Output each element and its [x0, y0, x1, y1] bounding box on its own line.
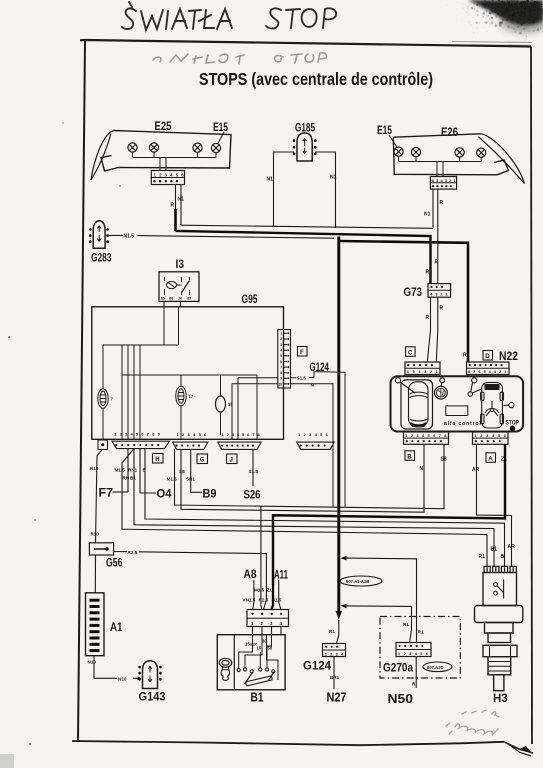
- F boxed label: [298, 347, 308, 357]
- A boxed label: [486, 453, 496, 463]
- fusebox A1: [86, 593, 105, 656]
- bulb E26-2: [411, 148, 420, 157]
- svg-text:N: N: [420, 466, 424, 472]
- brake switch H3 body: [475, 573, 523, 691]
- svg-text:123456: 123456: [474, 433, 509, 438]
- wires connector to ignition switch box: [253, 627, 282, 635]
- G95 internal wire from 30: [178, 307, 180, 345]
- D boxed label: [483, 351, 493, 361]
- right extra connector trapezoid: [297, 442, 335, 449]
- svg-text:N1.5: N1.5: [124, 234, 135, 240]
- wire lamp 17 down: [180, 406, 182, 440]
- svg-text:N1: N1: [424, 212, 431, 218]
- svg-text:N1.5: N1.5: [272, 597, 282, 602]
- svg-text:R: R: [440, 200, 444, 206]
- H boxed label: [153, 454, 164, 464]
- pointer line E15 to bulb: [389, 135, 398, 148]
- svg-text:G124: G124: [310, 362, 330, 374]
- svg-text:R: R: [412, 682, 416, 687]
- svg-text:7: 7: [111, 397, 114, 402]
- internal device 15 oval: [216, 396, 226, 412]
- faint pencil scribbles bottom right: [446, 710, 499, 735]
- R2.5 wire into pin 2: [264, 600, 267, 610]
- wire AR from A to H3: [477, 444, 512, 566]
- taillight housing E25 (left): [91, 131, 231, 180]
- svg-text:E15: E15: [377, 125, 392, 137]
- internal lamp 7: [98, 389, 108, 409]
- wire B to bundle (line P): [145, 449, 505, 567]
- arrow end of heavy wire: [336, 611, 342, 620]
- svg-text:1234: 1234: [251, 621, 289, 626]
- taillight housing E26 (right): [393, 134, 524, 184]
- svg-text:3: 3: [280, 343, 282, 347]
- bulb E26-1: [394, 147, 403, 156]
- svg-text:O4: O4: [157, 487, 172, 501]
- connector D: [467, 362, 510, 375]
- wire G185 right to N1 line: [315, 152, 335, 228]
- svg-text:123456: 123456: [298, 432, 331, 437]
- svg-text:R1: R1: [403, 622, 409, 627]
- svg-text:BR1: BR1: [330, 675, 340, 680]
- wire N1.5 from G283: [109, 235, 334, 238]
- wire M1.5-G to bundle (line S): [175, 444, 445, 508]
- connector G trapezoid: [173, 442, 208, 449]
- wire S1.5 from pin 9 through G124: [291, 372, 346, 507]
- svg-text:R1: R1: [463, 353, 470, 359]
- wire net N1 horizontal: [181, 225, 433, 228]
- G95 internal bus lower: [122, 374, 257, 376]
- oval tag 907.A1-A1B: [340, 576, 382, 586]
- svg-text:VN1.5: VN1.5: [243, 597, 256, 602]
- internal lamp wiring E26: [399, 156, 482, 176]
- svg-text:R10: R10: [91, 532, 100, 537]
- svg-text:M1.5: M1.5: [167, 477, 178, 482]
- svg-text:G: G: [200, 458, 205, 464]
- svg-text:G143: G143: [139, 690, 166, 704]
- svg-text:B: B: [407, 454, 412, 460]
- svg-text:4: 4: [280, 349, 282, 353]
- svg-text:N1: N1: [330, 175, 337, 181]
- G95 internal wire to lamp 7: [102, 345, 104, 389]
- svg-text:N1: N1: [178, 197, 185, 203]
- svg-text:H: H: [155, 457, 159, 463]
- G95 internal verticals to connector H: [122, 345, 140, 439]
- ignition switch connector (4 way): [247, 610, 289, 627]
- svg-text:50: 50: [268, 645, 273, 650]
- internal bus right leg: [256, 375, 258, 439]
- svg-text:R: R: [440, 306, 444, 312]
- svg-text:D: D: [485, 354, 490, 360]
- svg-text:C: C: [408, 350, 413, 356]
- wire VN1.5 to A8: [253, 580, 254, 610]
- svg-text:G270a: G270a: [383, 663, 414, 675]
- svg-text:STOPS (avec centrale de contrô: STOPS (avec centrale de contrôle): [199, 69, 433, 89]
- svg-text:A11: A11: [274, 568, 288, 582]
- internal wire pin10: [232, 384, 278, 440]
- svg-text:30: 30: [178, 296, 182, 300]
- svg-text:R1: R1: [479, 554, 486, 560]
- scan smudge top-right corner: [446, 0, 543, 45]
- svg-text:RN: RN: [123, 476, 130, 481]
- svg-text:B1: B1: [251, 690, 264, 705]
- stray specks: [0, 122, 121, 768]
- svg-text:N22: N22: [499, 349, 518, 363]
- branch wire to G270a pin4: [345, 558, 417, 642]
- svg-text:G95: G95: [242, 294, 258, 306]
- wire I3 pin 30 to G95: [180, 301, 182, 306]
- connector E26 (6 way): [430, 177, 457, 190]
- wire R2 G73 to C connector: [436, 297, 438, 362]
- svg-text:R2.5: R2.5: [259, 597, 269, 602]
- arrowhead to G143: [138, 676, 142, 680]
- display plate rectangle: [446, 406, 468, 416]
- key symbol: [219, 658, 232, 680]
- ignition switch B1 box: [217, 635, 285, 690]
- svg-text:1: 1: [280, 332, 282, 336]
- G95 internal wire from 85: [163, 307, 165, 345]
- branch wire to G270a pin3: [345, 606, 412, 643]
- svg-text:E15: E15: [213, 122, 228, 134]
- svg-text:N10: N10: [118, 676, 127, 681]
- svg-text:G56: G56: [106, 558, 123, 570]
- bulb E25-3: [193, 143, 202, 152]
- arrowhead at heavy wire: [341, 604, 347, 609]
- svg-text:M1.5: M1.5: [254, 588, 265, 593]
- svg-text:A8: A8: [244, 567, 257, 581]
- C boxed label: [406, 347, 416, 357]
- wire R (E25 pin to stop feed): [175, 185, 177, 232]
- wire net R thick horizontal: [176, 231, 431, 284]
- svg-text:B1: B1: [130, 476, 136, 481]
- STOP indicator dot: [510, 426, 516, 432]
- svg-text:1234: 1234: [325, 651, 347, 656]
- wire R G73 to C connector: [427, 297, 430, 362]
- wire to lamp 17: [180, 375, 182, 387]
- svg-text:87654321: 87654321: [468, 369, 509, 374]
- svg-text:S26: S26: [244, 488, 261, 502]
- control unit G95 box: [92, 307, 284, 440]
- svg-text:R10: R10: [90, 466, 99, 471]
- svg-text:R: R: [171, 203, 175, 209]
- wire R1 to G124 connector: [337, 620, 339, 644]
- arrowhead at heavy wire: [341, 556, 347, 561]
- internal wire pin9: [238, 378, 278, 440]
- bulb E26-4: [477, 148, 486, 157]
- fuse link G56: [89, 543, 113, 555]
- svg-text:85: 85: [161, 296, 165, 300]
- G boxed label: [197, 454, 208, 464]
- lamp G283: [90, 221, 107, 249]
- Z1 thick into pin 3: [272, 585, 274, 610]
- svg-text:907.AJD: 907.AJD: [427, 665, 444, 670]
- svg-text:S8: S8: [179, 469, 185, 474]
- svg-text:alfa control: alfa control: [444, 421, 482, 427]
- wire M1.5 from H to bundle: [122, 449, 487, 567]
- svg-text:5: 5: [280, 354, 282, 358]
- wire R10 down to G56: [96, 450, 103, 544]
- car rear-view (right): [481, 382, 504, 428]
- svg-text:907.A1-A1B: 907.A1-A1B: [346, 579, 369, 584]
- indicator circle with pointer: [395, 378, 415, 393]
- svg-text:R: R: [435, 260, 439, 266]
- J boxed label: [227, 454, 238, 464]
- wire R10 G56 to fusebox A1: [94, 555, 96, 593]
- svg-text:AR: AR: [508, 544, 516, 550]
- svg-text:87: 87: [187, 296, 191, 300]
- heavy wire 907.A1-A1B vertical: [337, 237, 340, 613]
- svg-text:4321: 4321: [430, 292, 450, 297]
- B1 internal contacts: [237, 635, 278, 686]
- dash-dot box around G270a: [380, 617, 460, 679]
- svg-text:2: 2: [280, 337, 282, 341]
- wire M1.5 tee from bundle: [261, 506, 262, 609]
- connector G124 (bottom): [323, 644, 347, 657]
- pointer line E15 to bulb: [218, 132, 224, 144]
- svg-text:17: 17: [189, 394, 194, 399]
- svg-text:RN1: RN1: [128, 468, 138, 473]
- connector A: [473, 432, 510, 444]
- wire B1 to bundle (line Q): [134, 449, 494, 567]
- badge circle: [435, 378, 448, 399]
- svg-text:I3: I3: [176, 259, 185, 271]
- wire N1 (E26): [432, 189, 434, 228]
- svg-text:B9: B9: [203, 487, 217, 501]
- wire O4 dash: [140, 449, 156, 493]
- svg-text:F7: F7: [99, 486, 114, 500]
- bulb E25-4: [211, 143, 220, 152]
- svg-text:G73: G73: [404, 287, 423, 299]
- connector J trapezoid: [218, 442, 261, 449]
- svg-text:G124: G124: [303, 659, 331, 673]
- wire RN to F7: [127, 449, 129, 492]
- svg-text:Z1: Z1: [267, 588, 273, 593]
- svg-text:123456: 123456: [398, 651, 431, 656]
- svg-text:AR: AR: [472, 467, 480, 473]
- svg-text:SB1: SB1: [186, 477, 195, 482]
- lamp G185: [294, 133, 315, 161]
- F7 label with dash: [99, 486, 129, 500]
- svg-text:R1: R1: [329, 629, 335, 634]
- svg-text:15: 15: [228, 402, 233, 407]
- svg-text:8: 8: [280, 371, 282, 375]
- wire N10 A1 to G143: [94, 656, 138, 679]
- connector G270a: [396, 643, 431, 657]
- switch lever symbol: [468, 378, 482, 397]
- lamp G143: [140, 661, 161, 689]
- connector H trapezoid: [112, 441, 170, 448]
- svg-text:H3: H3: [493, 693, 508, 705]
- svg-text:123456789: 123456789: [114, 432, 163, 437]
- frame border: [72, 40, 533, 756]
- handwritten title SWIATLA STOP: [122, 2, 336, 30]
- svg-text:J: J: [230, 458, 233, 464]
- connector B: [404, 432, 450, 444]
- wire S8 to bundle (line T): [181, 444, 424, 512]
- car top view: [409, 382, 429, 427]
- svg-text:S1.5: S1.5: [249, 469, 259, 474]
- svg-text:12345678: 12345678: [405, 433, 450, 438]
- svg-text:S1.5: S1.5: [297, 376, 307, 381]
- wire lamp 7 to pin: [102, 408, 104, 439]
- svg-text:A1: A1: [110, 620, 123, 634]
- tiny connector E below G95: [98, 440, 108, 450]
- B boxed label: [405, 451, 415, 461]
- G95 internal bus upper: [103, 344, 179, 346]
- control unit N22 main box: [391, 376, 524, 431]
- svg-text:F: F: [300, 350, 304, 356]
- svg-text:S8: S8: [441, 457, 447, 463]
- svg-text:N50: N50: [388, 692, 414, 706]
- svg-text:N10: N10: [88, 660, 97, 665]
- wire BR1 to N27: [333, 657, 335, 690]
- svg-text:A: A: [488, 456, 493, 462]
- wire device 15 down: [220, 412, 222, 435]
- svg-text:86: 86: [169, 296, 173, 300]
- wire I3 pin 85 to G95: [163, 301, 165, 306]
- thick wire Z1 from A to ignition switch: [273, 444, 505, 585]
- wire R to N50: [415, 657, 417, 689]
- svg-text:654321: 654321: [407, 369, 442, 374]
- connector G73: [428, 284, 451, 298]
- svg-text:E25: E25: [155, 121, 172, 133]
- wire R (E26) down to G73: [437, 189, 439, 283]
- svg-text:N: N: [311, 383, 315, 388]
- svg-text:E26: E26: [441, 127, 458, 139]
- svg-text:R: R: [426, 315, 430, 321]
- svg-text:654321: 654321: [432, 178, 458, 183]
- pointer circle right: [504, 403, 514, 408]
- bulb E26-3: [455, 148, 464, 157]
- svg-text:G185: G185: [295, 123, 315, 135]
- wire G185 left to N1 line: [274, 152, 295, 227]
- wire R2.5 from G56 to ignition connector: [114, 552, 267, 601]
- svg-text:N27: N27: [327, 691, 347, 705]
- svg-text:15: 15: [257, 645, 262, 650]
- connector strip F on G95: [278, 330, 291, 389]
- oval tag 907.AJD: [423, 662, 452, 672]
- svg-text:7: 7: [280, 365, 282, 369]
- bulb E25-1: [128, 143, 137, 152]
- svg-text:123456: 123456: [177, 432, 210, 437]
- connector E25 (6 way): [151, 171, 186, 185]
- svg-text:12345678: 12345678: [222, 432, 263, 437]
- faint handwriting second line: [153, 53, 327, 64]
- connector C: [405, 362, 441, 375]
- svg-text:B: B: [501, 554, 505, 560]
- wire N1.5 to A11: [279, 580, 281, 610]
- svg-text:M1.5: M1.5: [115, 468, 126, 473]
- svg-text:N1: N1: [267, 177, 274, 183]
- svg-text:R1: R1: [418, 630, 424, 635]
- svg-text:30: 30: [262, 639, 267, 644]
- brake switch H3 terminals: [484, 566, 516, 572]
- svg-text:R2.5: R2.5: [128, 550, 138, 555]
- svg-text:G283: G283: [91, 253, 112, 265]
- bulb E25-2: [149, 143, 158, 152]
- svg-text:123456: 123456: [154, 173, 187, 178]
- wire N from pin 10: [291, 384, 334, 507]
- svg-text:9: 9: [280, 377, 282, 381]
- svg-text:R: R: [426, 270, 430, 276]
- relay I3: [159, 272, 199, 302]
- svg-text:10: 10: [278, 382, 282, 386]
- svg-text:6: 6: [280, 360, 282, 364]
- wire SB1 to B9: [191, 449, 202, 492]
- internal lamp wiring E25: [133, 152, 217, 170]
- car top-view frame (left display): [401, 380, 433, 429]
- heavy wire junction to D connector: [339, 241, 468, 362]
- wire to device 15: [220, 375, 222, 397]
- svg-text:B: B: [143, 468, 147, 473]
- wire S1.5 to S26: [252, 449, 254, 486]
- internal lamp 17: [176, 386, 186, 406]
- wire N1 (E25): [180, 185, 182, 226]
- svg-text:B1: B1: [491, 547, 498, 553]
